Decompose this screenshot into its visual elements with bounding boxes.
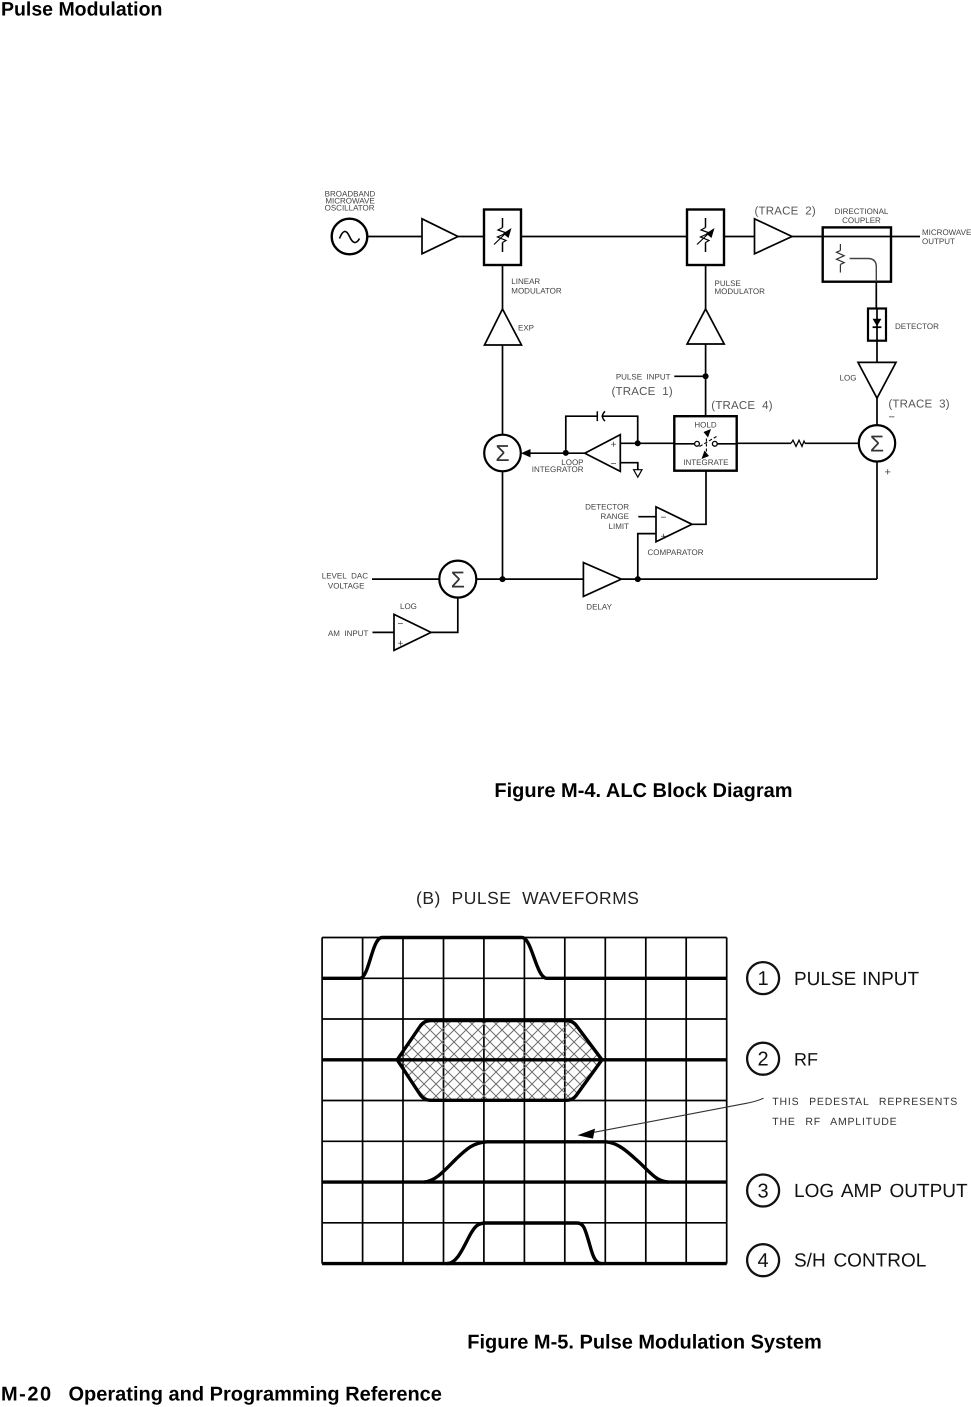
svg-text:RANGE: RANGE — [601, 512, 629, 521]
label circle 1 — [747, 962, 779, 994]
svg-text:AM INPUT: AM INPUT — [328, 629, 369, 638]
summing node sigma3 — [859, 425, 895, 461]
detector box — [868, 309, 886, 341]
svg-text:OUTPUT: OUTPUT — [922, 237, 955, 246]
svg-text:COUPLER: COUPLER — [842, 216, 881, 225]
svg-text:−: − — [611, 459, 617, 470]
svg-text:DETECTOR: DETECTOR — [895, 322, 939, 331]
svg-text:MODULATOR: MODULATOR — [715, 287, 766, 296]
junction feedback node — [635, 440, 641, 446]
MICROWAVE OUTPUT label — [922, 228, 971, 246]
linear modulator label — [511, 277, 562, 295]
junction pulse input node — [703, 373, 709, 379]
wire op-amp plus input to hold box — [620, 442, 674, 444]
svg-text:LIMIT: LIMIT — [609, 522, 630, 531]
graticule grid — [322, 938, 727, 1264]
wire level dac to sigma2 — [372, 578, 439, 580]
wire amp1 to linear modulator — [458, 236, 484, 238]
exp amplifier A4 — [485, 309, 522, 345]
svg-text:M-20: M-20 — [1, 1384, 53, 1406]
RF envelope hatch — [285, 1005, 707, 1115]
wire resistor to hold box — [737, 442, 791, 444]
svg-text:Σ: Σ — [870, 431, 884, 457]
amplifier A2 — [755, 219, 793, 254]
svg-text:Pulse Modulation: Pulse Modulation — [1, 0, 162, 21]
svg-text:RF: RF — [794, 1049, 818, 1069]
svg-text:+: + — [885, 467, 891, 479]
trace 3 log amp output baseline — [322, 1180, 727, 1183]
comparator U3 — [656, 507, 692, 543]
svg-text:DIRECTIONAL: DIRECTIONAL — [835, 207, 889, 216]
wire pulse amp to pulse modulator — [705, 265, 707, 309]
summing node sigma1 — [484, 435, 521, 472]
trace 1 pulse input waveform — [322, 938, 727, 979]
loop integrator label — [532, 458, 584, 474]
trace 3 log amp output curve — [424, 1142, 669, 1182]
svg-text:Figure M-5. Pulse Modulation S: Figure M-5. Pulse Modulation System — [467, 1332, 822, 1354]
summing node sigma2 — [439, 561, 476, 598]
trace 4 s/h control baseline — [322, 1262, 727, 1265]
wire log amp to sigma3 — [876, 398, 878, 425]
RF envelope outline — [397, 1021, 602, 1101]
svg-text:−: − — [661, 513, 667, 524]
svg-text:VOLTAGE: VOLTAGE — [328, 581, 365, 590]
junction level dac node — [500, 576, 506, 582]
wire sigma1 down to level dac line — [502, 471, 504, 579]
coupler coupled line — [850, 259, 877, 282]
hold/integrate switch box U2 — [674, 416, 736, 471]
feedback wire left side — [566, 416, 598, 453]
detector range limit label — [585, 502, 629, 531]
wire op-amp minus input to ground — [620, 463, 638, 470]
oscillator OSC label — [325, 190, 376, 213]
detector diode CR1 — [873, 309, 882, 341]
label circle 3 — [747, 1175, 779, 1207]
svg-text:S/H CONTROL: S/H CONTROL — [794, 1251, 926, 1272]
BLOCK DIAGRAM GROUP — [322, 190, 971, 651]
capacitor C1 — [597, 411, 605, 421]
feedback wire right side — [602, 416, 638, 443]
wire hold box top to pulse amp — [705, 344, 707, 416]
svg-text:OSCILLATOR: OSCILLATOR — [325, 203, 375, 212]
svg-text:+: + — [611, 439, 617, 450]
wire delay output to sigma3 bottom — [621, 578, 877, 580]
amplifier A1 — [422, 219, 458, 254]
svg-text:THE RF AMPLITUDE: THE RF AMPLITUDE — [772, 1116, 897, 1128]
wire pulse input — [674, 375, 705, 377]
wire sigma2 to delay amp — [476, 578, 583, 580]
wire linear mod down to exp amp — [502, 265, 504, 309]
pulse amplifier A3 — [687, 309, 724, 344]
directional coupler box — [823, 227, 891, 281]
svg-text:(TRACE 3): (TRACE 3) — [888, 399, 949, 411]
wire comparator output to hold box bottom — [692, 471, 706, 525]
svg-text:−: − — [889, 412, 895, 424]
loop integrator output wire with arrow into sigma1 — [521, 449, 585, 457]
wire exp amp to sigma1 — [502, 345, 504, 435]
svg-text:DELAY: DELAY — [586, 603, 612, 612]
svg-text:INTEGRATOR: INTEGRATOR — [532, 465, 584, 474]
trace 4 s/h control pulse — [447, 1223, 602, 1264]
oscillator (broadband microwave oscillator) — [332, 219, 368, 255]
svg-text:PULSE INPUT: PULSE INPUT — [794, 969, 919, 990]
coupler termination resistor — [837, 244, 845, 273]
WAVEFORM DIAGRAM GROUP — [285, 888, 968, 1276]
svg-text:Σ: Σ — [495, 440, 509, 466]
svg-text:+: + — [398, 639, 404, 650]
svg-text:(B) PULSE WAVEFORMS: (B) PULSE WAVEFORMS — [416, 888, 639, 908]
svg-text:LEVEL DAC: LEVEL DAC — [322, 571, 368, 580]
svg-text:(TRACE 4): (TRACE 4) — [711, 400, 772, 412]
label circle 4 — [747, 1244, 779, 1276]
am log amplifier A6 — [394, 614, 431, 650]
svg-text:MODULATOR: MODULATOR — [511, 286, 562, 295]
svg-text:MICROWAVE: MICROWAVE — [922, 228, 971, 237]
svg-text:2: 2 — [758, 1049, 769, 1071]
log amplifier (detector log amp) — [858, 362, 896, 398]
svg-text:Σ: Σ — [451, 566, 465, 592]
wire comparator plus input — [638, 534, 656, 580]
svg-text:LOG AMP OUTPUT: LOG AMP OUTPUT — [794, 1181, 968, 1202]
svg-text:(TRACE 1): (TRACE 1) — [612, 386, 673, 398]
LEVEL DAC VOLTAGE label — [322, 571, 368, 590]
trace 2 RF baseline — [322, 1058, 727, 1061]
wire pulse mod to amp2 — [724, 236, 755, 238]
wire amp2 to microwave output — [792, 236, 920, 238]
loop integrator op-amp U1 — [585, 435, 621, 472]
resistor R1 — [791, 440, 805, 446]
svg-text:−: − — [398, 619, 404, 630]
svg-text:LOG: LOG — [400, 602, 417, 611]
wire osc to amp1 — [367, 236, 422, 238]
svg-text:LOG: LOG — [840, 374, 857, 383]
wire linear mod to pulse mod — [521, 236, 687, 238]
svg-text:LINEAR: LINEAR — [511, 277, 540, 286]
svg-text:PULSE INPUT: PULSE INPUT — [616, 372, 671, 381]
svg-text:HOLD: HOLD — [694, 421, 716, 430]
directional coupler label — [835, 207, 889, 225]
svg-text:Figure M-4. ALC Block Diagram: Figure M-4. ALC Block Diagram — [494, 780, 792, 802]
delay amplifier A5 — [583, 563, 621, 597]
pulse modulator box — [687, 210, 724, 266]
ground — [634, 470, 642, 478]
svg-text:THIS PEDESTAL REPRESENTS: THIS PEDESTAL REPRESENTS — [772, 1096, 958, 1108]
label circle 2 — [747, 1043, 779, 1075]
svg-text:(TRACE 2): (TRACE 2) — [755, 206, 816, 218]
svg-text:EXP: EXP — [518, 324, 534, 333]
wire detector range limit to comparator minus — [638, 516, 656, 518]
wire am input to log amp — [373, 631, 395, 633]
linear modulator box — [484, 210, 521, 266]
svg-text:INTEGRATE: INTEGRATE — [683, 458, 728, 467]
wire sigma3 to resistor — [805, 442, 859, 444]
callout leader arrow — [592, 1098, 764, 1133]
svg-text:1: 1 — [758, 968, 769, 990]
svg-text:4: 4 — [758, 1250, 769, 1272]
svg-text:DETECTOR: DETECTOR — [585, 502, 629, 511]
wire coupler to detector — [875, 282, 877, 309]
pulse modulator label — [715, 279, 766, 296]
svg-text:Operating and Programming Refe: Operating and Programming Reference — [69, 1384, 442, 1406]
wire detector to log amp — [876, 341, 878, 363]
svg-text:+: + — [661, 531, 667, 542]
wire am log amp to sigma2 bottom — [431, 598, 458, 633]
svg-text:3: 3 — [758, 1181, 769, 1203]
junction delay output node — [635, 576, 641, 582]
wire sigma3 down to delay line — [876, 462, 878, 580]
svg-text:COMPARATOR: COMPARATOR — [648, 548, 704, 557]
